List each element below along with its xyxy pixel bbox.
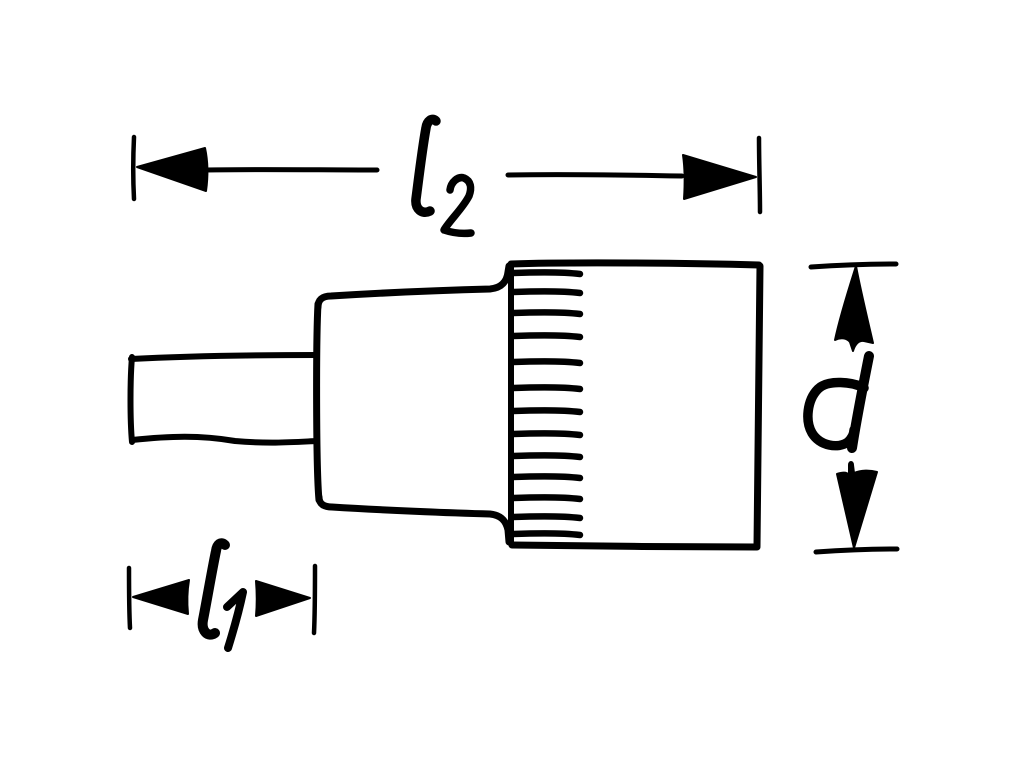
knurl line 8	[513, 433, 580, 435]
knurl line 9	[513, 455, 580, 457]
label d: bowl	[808, 382, 864, 445]
socket collar: left edge	[317, 304, 319, 500]
dimension l2: right extension tick	[759, 138, 760, 212]
dimension l1: left arrowhead	[133, 580, 189, 614]
socket body: knurl base (left edge)	[508, 264, 514, 544]
socket collar: top edge with corner	[318, 266, 509, 307]
dimension d: bottom extension tick	[816, 549, 897, 552]
knurl line 3	[513, 312, 580, 314]
socket body: top edge	[511, 263, 759, 265]
dimension l2: left dimension line	[206, 167, 377, 172]
dimension d: up arrowhead	[835, 266, 873, 351]
knurl line 6	[513, 387, 580, 389]
dimension d: down arrowhead	[837, 462, 877, 548]
socket collar: bottom edge with corner	[319, 497, 509, 542]
knurl line 5	[513, 361, 580, 363]
dimension l2: right arrowhead	[683, 155, 756, 199]
knurl line 1	[513, 272, 580, 274]
knurl line 7	[513, 410, 580, 412]
label l2: subscript 2	[444, 178, 471, 234]
dimension l1: right extension tick	[314, 566, 315, 633]
knurl line 13	[513, 533, 580, 535]
label d: ascender	[852, 356, 869, 448]
knurl line 2	[513, 291, 580, 293]
label l1: letter l	[203, 543, 225, 634]
dimension l1: right arrowhead	[256, 581, 310, 616]
knurl line 4	[513, 335, 580, 337]
socket body: bottom edge	[512, 545, 757, 547]
knurl line 10	[513, 476, 580, 478]
dimension l2: right dimension line	[508, 175, 682, 176]
dimension d: top extension tick	[811, 264, 896, 267]
label l1: subscript 1	[227, 592, 243, 648]
knurl line 11	[513, 497, 580, 499]
dimension l1: left extension tick	[129, 568, 130, 628]
socket shaft: top edge	[131, 355, 317, 359]
dimension l2: left extension tick	[131, 137, 136, 199]
socket body: right edge	[757, 266, 760, 546]
knurl line 12	[513, 516, 580, 518]
label l2: letter l	[416, 119, 436, 212]
socket shaft: bottom edge	[132, 437, 317, 443]
socket shaft: left edge	[131, 357, 133, 442]
dimension l2: left arrowhead	[137, 148, 207, 191]
